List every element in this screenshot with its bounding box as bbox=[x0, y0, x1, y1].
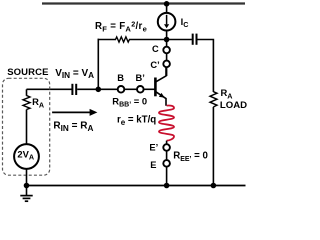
wire E' to E bbox=[166, 151, 168, 160]
input wire source to cap bbox=[27, 88, 72, 90]
node C' bbox=[163, 61, 170, 68]
wire E to bottom rail bbox=[166, 167, 168, 186]
node E' bbox=[163, 144, 170, 151]
node junction collector/feedback bbox=[164, 37, 170, 43]
wire C' to transistor collector bbox=[166, 67, 168, 76]
wire C to C' bbox=[166, 53, 168, 60]
node B bbox=[118, 86, 125, 93]
svg-text:REE’ = 0: REE’ = 0 bbox=[173, 151, 208, 163]
node B' bbox=[137, 86, 144, 93]
junction load/rail bbox=[211, 183, 217, 189]
svg-text:B’: B’ bbox=[136, 73, 145, 83]
wire voltage source to rail bbox=[26, 169, 28, 186]
wire rail to current source bbox=[166, 4, 168, 14]
svg-text:LOAD: LOAD bbox=[220, 100, 247, 111]
svg-text:SOURCE: SOURCE bbox=[7, 67, 48, 78]
svg-text:RIN = RA: RIN = RA bbox=[53, 120, 93, 132]
wire cap to load corner bbox=[198, 40, 214, 93]
svg-text:C: C bbox=[152, 44, 159, 54]
intrinsic emitter resistance re coil (red) bbox=[159, 106, 174, 141]
transistor emitter lead bbox=[156, 92, 166, 106]
wire B' to transistor base bbox=[144, 88, 155, 90]
wire cap to base node bbox=[77, 88, 118, 90]
transistor emitter arrowhead bbox=[159, 93, 165, 98]
ground symbol bbox=[26, 186, 28, 196]
bottom ground rail bbox=[27, 185, 246, 187]
feedback wire horizontal left part bbox=[98, 39, 117, 41]
output coupling capacitor bbox=[192, 34, 194, 45]
svg-text:E: E bbox=[150, 160, 156, 170]
wire current source to collector junction bbox=[166, 31, 168, 42]
junction source/rail bbox=[24, 183, 30, 189]
source wire top corner bbox=[26, 89, 28, 96]
node E bbox=[163, 160, 170, 167]
voltage source 2VA circle bbox=[14, 144, 39, 169]
junction top rail / current source bbox=[164, 1, 170, 7]
wire coil to node E' bbox=[166, 141, 168, 145]
transistor Q1 base bar bbox=[154, 78, 157, 97]
transistor collector lead bbox=[156, 67, 166, 81]
wire B to B' bbox=[124, 88, 137, 90]
source resistor RA zigzag bbox=[23, 96, 30, 110]
input impedance arrow bbox=[52, 111, 91, 113]
top supply rail bbox=[42, 2, 245, 4]
wire load resistor to bottom rail bbox=[212, 107, 214, 186]
svg-text:E’: E’ bbox=[149, 143, 158, 153]
junction emitter/rail bbox=[164, 183, 170, 189]
svg-text:B: B bbox=[117, 73, 124, 83]
svg-text:C’: C’ bbox=[150, 60, 159, 70]
resistor RF zigzag bbox=[116, 37, 130, 42]
wire collector junction to node C bbox=[166, 40, 168, 48]
wire resistor to voltage source bbox=[26, 110, 28, 145]
junction base/feedback bbox=[96, 87, 102, 93]
node C bbox=[163, 47, 170, 54]
load resistor RA zigzag bbox=[210, 92, 217, 107]
feedback wire horizontal right part bbox=[129, 39, 192, 41]
feedback wire vertical bbox=[97, 39, 99, 90]
source dashed box bbox=[3, 78, 50, 175]
input coupling capacitor bbox=[71, 84, 73, 95]
current source IC bbox=[158, 13, 176, 31]
